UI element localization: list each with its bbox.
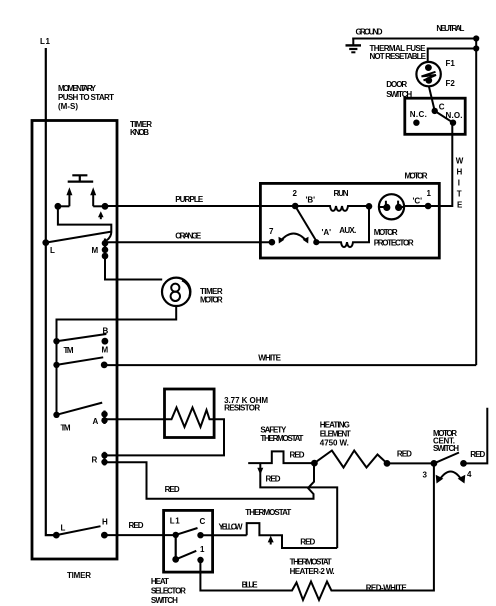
svg-text:BLUE: BLUE [242,581,259,590]
small arrow under right dot [98,211,104,219]
svg-text:T: T [457,190,462,199]
svg-text:RED: RED [266,475,281,484]
wire ground to neutral [352,38,476,40]
svg-text:'C': 'C' [413,197,423,206]
wire fuse to door switch C [429,86,435,111]
svg-text:F1: F1 [446,59,456,68]
contact A stack [101,411,107,425]
svg-text:THERMOSTAT: THERMOSTAT [290,558,332,567]
wire fuse to neutral [428,49,477,63]
svg-text:C: C [200,517,206,526]
svg-text:YELLOW: YELLOW [219,523,243,532]
svg-text:R: R [92,456,98,465]
resistor R1 box [165,389,215,438]
ground symbol [346,39,362,53]
svg-text:L1: L1 [40,37,51,46]
svg-text:2: 2 [293,189,298,198]
label thermostat heater 2W [290,558,335,577]
svg-text:L1: L1 [170,517,181,526]
svg-text:PUSH TO START: PUSH TO START [58,93,114,102]
cent switch throw arc [436,472,466,484]
run winding [295,206,369,211]
svg-text:1: 1 [427,189,432,198]
svg-text:RED: RED [470,450,485,459]
wire ORANGE run [105,241,272,243]
wire push-button bypass to M [58,206,111,240]
svg-text:MOTOR: MOTOR [374,228,398,237]
node TM3 dot [53,412,59,418]
svg-text:'B': 'B' [306,196,316,205]
svg-text:GROUND: GROUND [356,28,383,37]
svg-text:WHITE: WHITE [258,354,281,363]
node aux junction dot [313,239,319,245]
svg-text:PROTECTOR: PROTECTOR [374,239,414,248]
aux winding [316,206,369,247]
node neutral dot lower [473,45,479,51]
svg-text:4: 4 [467,470,472,479]
label motor protector [374,228,414,248]
wire RED from 4 up [464,408,488,464]
contact B dot [102,338,109,345]
svg-text:MOMENTARY: MOMENTARY [58,84,97,93]
svg-text:RED: RED [129,521,144,530]
wire protector to terminal 1 [404,205,428,207]
push-button S (momentary start) [66,175,96,206]
wire timer motor return [57,306,177,415]
wire A to resistor [105,418,165,420]
wire RED to cent switch [387,462,434,464]
node motor terminal 2 dot [292,203,299,210]
wire thermostat right riser [260,463,337,548]
safety thermostat [248,451,314,463]
label heat selector switch [151,577,186,605]
svg-text:F2: F2 [446,79,456,88]
svg-text:1: 1 [200,545,205,554]
svg-text:MOTOR: MOTOR [200,296,223,305]
label 3.77 K OHM resistor [224,396,268,413]
heat selector switch box [164,510,213,572]
svg-text:(M-S): (M-S) [58,102,78,111]
node cent switch dot 4 [460,460,467,467]
resistor R1 zigzag [165,408,215,428]
label momentary push to start [58,84,114,111]
junction arrow down [257,468,263,475]
wire RED from H to heat selector [104,534,175,536]
node push-button right dot [102,203,109,210]
svg-text:NEUTRAL: NEUTRAL [436,24,464,33]
thermal fuse F1/F2 [416,62,440,86]
contact H dot [101,532,108,539]
node door switch NO dot [450,120,456,126]
switch TM2 blade [57,357,104,365]
motor box [260,183,439,258]
node cent switch dot 3 [431,460,438,467]
contact 7 throw arc [279,234,309,244]
node TM2 dot [53,362,59,368]
svg-text:L: L [61,524,66,533]
svg-text:SELECTOR: SELECTOR [151,587,186,596]
wire L1 vertical feed [46,48,57,535]
svg-text:H: H [102,518,108,527]
wire NEUTRAL down to white run [475,39,477,366]
node L dot (bottom) [53,532,60,539]
switch cent blade [434,453,459,464]
contact M dot (white) [101,362,108,369]
node neutral dot top [473,35,479,41]
svg-text:4750 W.: 4750 W. [320,439,349,448]
node TM1 dot [53,338,59,344]
wire resistor to R contact [105,419,225,455]
thermostat (cycling) bump [247,523,338,548]
wire RED-WHITE bottom run from 3 [200,463,434,600]
node L dot [42,239,49,246]
wire terminal 1 to door switch NO [428,123,452,206]
wire push-button left leg [58,205,70,207]
label timer motor [200,287,223,305]
switch L-H blade [56,526,100,535]
wire WHITE run [104,364,476,366]
svg-text:HEATING: HEATING [320,421,350,430]
svg-text:RED: RED [300,538,315,547]
svg-text:TM: TM [61,424,71,433]
node lower pole dot [172,556,179,563]
motor protector U2 [379,194,404,219]
svg-text:A: A [93,417,99,426]
label door switch [386,80,412,99]
svg-text:SWITCH: SWITCH [433,444,459,453]
svg-text:'A': 'A' [322,228,332,237]
node heater junction dot [311,460,318,467]
svg-text:L: L [50,246,55,255]
node push-button left dot [55,203,62,210]
contact M stack [102,239,109,260]
svg-text:N.C.: N.C. [410,110,427,119]
contact R stack [101,452,107,466]
switch L-M blade [46,232,112,243]
switch TM3 blade [57,403,103,415]
switch TM1 blade [57,334,107,341]
wire YELLOW from C [201,534,247,536]
svg-text:B: B [103,327,109,336]
svg-text:KNOB: KNOB [130,128,149,137]
contact 1 dot [197,557,203,563]
node run/aux junction dot [366,203,373,210]
svg-text:3: 3 [423,471,428,480]
svg-text:THERMOSTAT: THERMOSTAT [260,434,303,443]
svg-text:M: M [92,246,99,255]
svg-text:W: W [456,157,464,166]
svg-text:TIMER: TIMER [67,571,91,580]
node motor terminal 1 dot [425,203,432,210]
node door switch NC dot [413,120,419,126]
node door switch C dot [432,108,438,114]
door switch box [405,98,465,134]
svg-text:HEATER-2 W.: HEATER-2 W. [290,567,335,576]
node motor terminal 7 dot [269,239,276,246]
svg-text:I: I [458,179,460,188]
svg-text:DOOR: DOOR [386,80,407,89]
label WHITE vertical [456,157,464,210]
svg-text:RED: RED [165,485,180,494]
svg-text:E: E [457,201,463,210]
svg-text:RED-WHITE: RED-WHITE [366,584,408,593]
label heating element 4750 W [320,421,351,448]
svg-text:N.O.: N.O. [446,111,463,120]
timer motor TM1 [162,278,190,306]
label timer knob [130,120,152,137]
node L1 dot [173,532,179,538]
switch heat selector blade lower [176,551,197,560]
timer box [32,121,117,560]
svg-text:ORANGE: ORANGE [175,232,202,241]
wire L1 to lower pole [175,535,177,560]
svg-text:RUN: RUN [334,189,349,198]
svg-text:PURPLE: PURPLE [175,195,204,204]
switch motor start blade [295,206,316,241]
switch door blade C-NO [435,111,453,123]
svg-text:THERMOSTAT: THERMOSTAT [245,508,291,517]
label safety thermostat [260,426,303,444]
heating element zigzag [314,451,387,468]
svg-text:SWITCH: SWITCH [151,596,178,605]
label thermal fuse not resetable [370,44,427,61]
wire RED from R to heater junction [105,462,315,499]
svg-text:NOT RESETABLE: NOT RESETABLE [370,52,427,61]
node heating element right dot [384,460,391,467]
switch heat selector blade L1 [176,528,198,535]
svg-text:M: M [102,346,109,355]
wire PURPLE run [105,205,295,207]
wire M to timer motor [105,259,162,280]
svg-text:RED: RED [397,450,412,459]
svg-text:C: C [439,103,445,112]
svg-text:7: 7 [269,227,274,236]
svg-text:MOTOR: MOTOR [405,172,428,181]
svg-text:ELEMENT: ELEMENT [320,430,351,439]
svg-text:RED: RED [290,451,305,460]
svg-text:AUX.: AUX. [339,226,356,235]
junction arrow up [268,536,274,545]
contact C dot [197,532,203,538]
svg-text:RESISTOR: RESISTOR [224,404,260,413]
wire push-button right leg [93,205,105,207]
svg-text:HEAT: HEAT [151,577,169,586]
svg-text:TM: TM [64,346,74,355]
label motor cent switch [433,429,459,453]
svg-text:H: H [457,168,463,177]
